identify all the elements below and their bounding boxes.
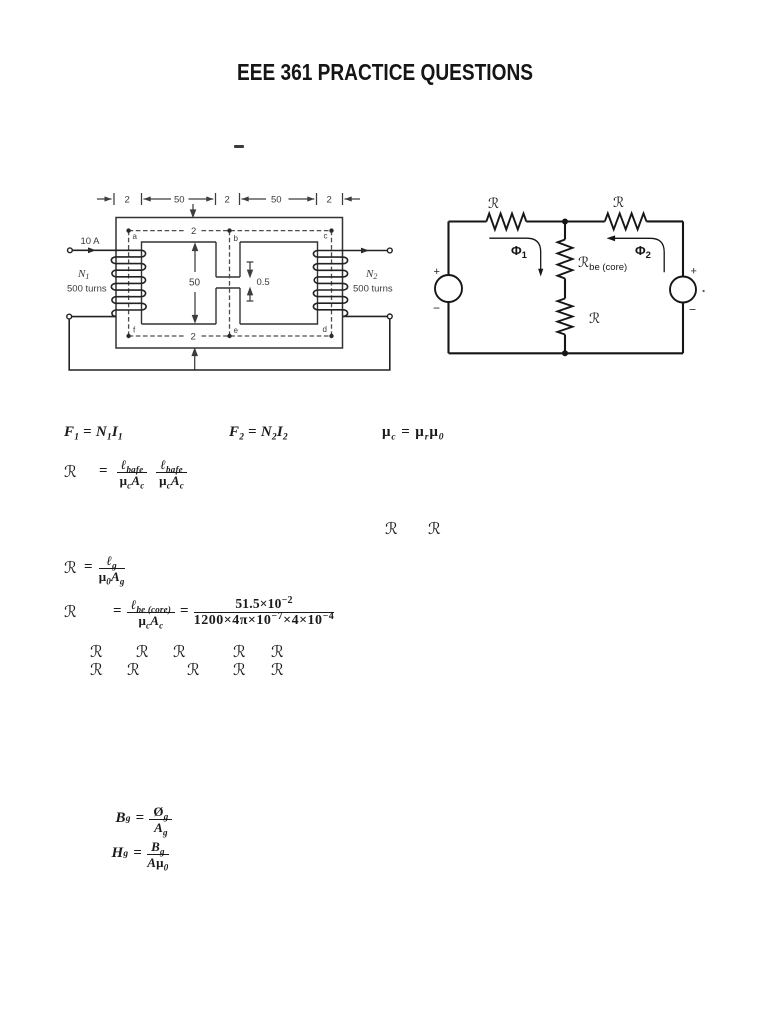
svg-text:ℛbe (core): ℛbe (core) [578, 256, 627, 273]
mmf source F1 [435, 275, 462, 302]
equation F1 = N1 I1 [64, 424, 123, 441]
svg-text:a: a [133, 232, 138, 241]
left figure texts [67, 195, 393, 343]
terminal bottom-right [387, 314, 392, 319]
node a [126, 228, 130, 232]
title [237, 59, 533, 86]
svg-text:c: c [324, 232, 328, 241]
terminal top-right [387, 248, 392, 253]
svg-text:2: 2 [191, 226, 196, 237]
svg-text:+: + [434, 266, 440, 278]
bottom wire [449, 352, 684, 354]
top wire [449, 220, 684, 222]
dim arrow up to core bottom [192, 349, 197, 370]
winding N1 (left leg) [72, 250, 147, 316]
equation R = lbe(core)/mucAc = 51.5e-2 / (1200 x 4pi e-7 x 4e-4) [64, 596, 334, 628]
svg-text:50: 50 [189, 278, 201, 289]
core window left [142, 242, 217, 324]
svg-text:N1: N1 [77, 268, 89, 281]
svg-text:ℛ: ℛ [613, 196, 624, 211]
svg-text:2: 2 [191, 332, 196, 343]
left branch wire [447, 222, 449, 354]
node e [227, 334, 231, 338]
dimension line top [97, 193, 360, 205]
junction node bottom [562, 350, 568, 356]
svg-text:10 A: 10 A [81, 236, 101, 247]
core outer outline [116, 218, 343, 349]
svg-text:e: e [234, 326, 239, 335]
air gap 0.5 dimension arrows [247, 262, 254, 301]
svg-text:N2: N2 [365, 268, 377, 281]
equation F2 = N2 I2 [229, 424, 288, 441]
flux arrow phi2 [611, 238, 665, 272]
scattered R row 2 [90, 660, 103, 680]
svg-text:500 turns: 500 turns [353, 284, 393, 295]
core window right [240, 242, 318, 324]
svg-text:b: b [234, 234, 239, 243]
node b [227, 228, 231, 232]
svg-text:f: f [133, 326, 136, 335]
equation Bg = phi_g / Ag [116, 804, 173, 834]
svg-text:2: 2 [327, 195, 332, 206]
svg-text:ℛ: ℛ [488, 197, 499, 212]
equation R = lbafe/mucAc lbafe/mucAc [64, 457, 187, 487]
bottom return wire [69, 319, 390, 370]
flux arrow phi1 [489, 238, 540, 271]
10 A current arrowhead [88, 247, 96, 253]
scattered R pair [385, 519, 398, 539]
dash mark [234, 145, 244, 148]
svg-text:500 turns: 500 turns [67, 284, 107, 295]
equation R = lg/mu0Ag [64, 553, 125, 583]
equation Hg = Bg / (A mu0) [112, 839, 169, 869]
center branch wires [564, 222, 566, 354]
svg-text:ℛ: ℛ [589, 312, 600, 327]
svg-text:2: 2 [225, 195, 230, 206]
svg-text:d: d [323, 325, 327, 334]
resistor R be (core) [558, 240, 573, 279]
winding N2 (right leg) [313, 251, 387, 317]
equation mu_c = mu_r mu_0 [382, 424, 444, 441]
svg-text:Φ2: Φ2 [635, 243, 651, 261]
air gap edges [216, 277, 240, 288]
right branch wire [682, 221, 684, 353]
svg-text:−: − [689, 303, 696, 317]
svg-text:50: 50 [174, 195, 185, 206]
terminal top-left [68, 248, 73, 253]
svg-text:50: 50 [271, 195, 282, 206]
svg-text:+: + [691, 266, 697, 278]
output current arrowhead [361, 248, 369, 254]
dimension 50 vertical [193, 244, 198, 322]
node d [329, 334, 333, 338]
right figure texts [433, 196, 705, 327]
junction node top [562, 219, 568, 225]
svg-text:−: − [433, 301, 440, 315]
svg-text:0.5: 0.5 [257, 277, 270, 288]
svg-text:Φ1: Φ1 [511, 243, 528, 261]
scattered R row 1 [90, 642, 103, 662]
resistor R top-left [486, 214, 526, 230]
terminal bottom-left [67, 314, 72, 319]
node c [329, 228, 333, 232]
flux path dashed [129, 231, 332, 336]
dim arrow down to core top [191, 204, 196, 217]
mmf source F2 [670, 277, 696, 303]
node f [126, 334, 130, 338]
svg-text:2: 2 [125, 195, 130, 206]
resistor R center-bottom [558, 299, 573, 335]
stray dot [703, 290, 705, 292]
resistor R top-right [605, 213, 647, 229]
